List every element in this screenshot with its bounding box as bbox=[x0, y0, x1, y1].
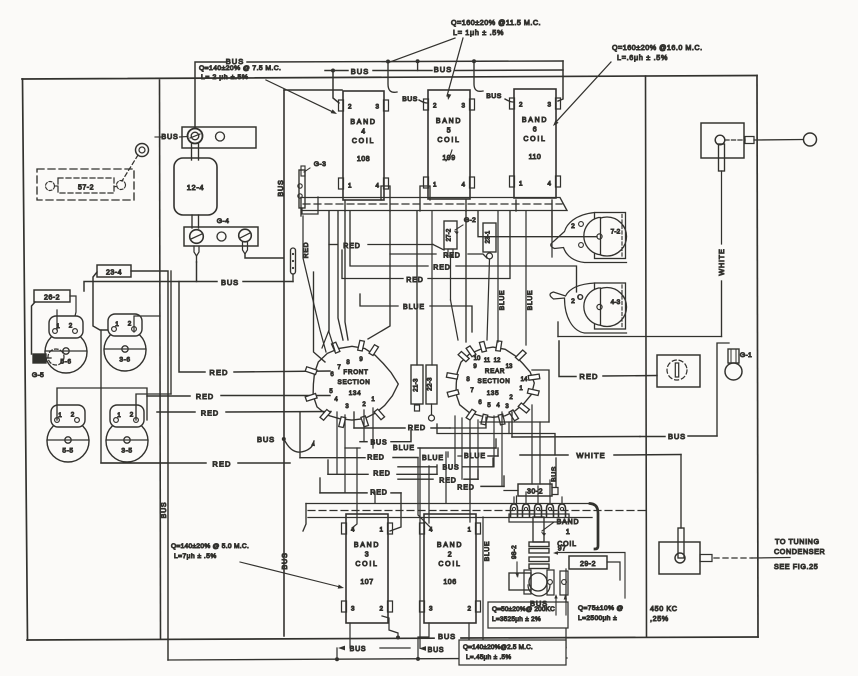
svg-text:BUS: BUS bbox=[530, 599, 548, 608]
svg-text:L= 1μh ± .5%: L= 1μh ± .5% bbox=[453, 28, 504, 37]
trimmer shaft dashed bbox=[725, 137, 754, 144]
coil L109 pins bbox=[433, 103, 465, 189]
svg-text:1: 1 bbox=[379, 527, 383, 534]
note Q140 2.5MC box bbox=[459, 640, 566, 665]
junction b3 b bbox=[416, 657, 420, 661]
svg-text:G-1: G-1 bbox=[740, 352, 752, 359]
label RED l2 bbox=[196, 392, 214, 401]
leader to band6 coil bbox=[553, 62, 611, 126]
label BUS curve bbox=[257, 435, 275, 444]
svg-text:23-4: 23-4 bbox=[106, 270, 122, 277]
svg-text:26-2: 26-2 bbox=[44, 295, 60, 302]
svg-text:TO TUNING: TO TUNING bbox=[775, 537, 820, 546]
svg-text:1: 1 bbox=[519, 181, 523, 188]
label band1 coil bbox=[557, 519, 580, 553]
red wire m1 bbox=[354, 412, 486, 428]
svg-text:Q=140±20% @ 7.5 M.C.: Q=140±20% @ 7.5 M.C. bbox=[199, 65, 281, 72]
svg-text:14: 14 bbox=[521, 377, 528, 383]
wire to cam 4-3 bbox=[350, 211, 577, 292]
junction rail2 bbox=[331, 69, 335, 73]
svg-text:5: 5 bbox=[447, 128, 451, 135]
svg-text:RED: RED bbox=[212, 460, 231, 469]
svg-text:3: 3 bbox=[547, 102, 551, 109]
wire b3p2 down bbox=[382, 616, 398, 638]
trimmer assembly bbox=[509, 570, 568, 596]
label BLUE m2 bbox=[422, 455, 444, 462]
wire b4p1 down bbox=[338, 200, 348, 340]
svg-text:3: 3 bbox=[429, 606, 433, 613]
svg-text:3: 3 bbox=[351, 606, 355, 613]
svg-text:BLUE: BLUE bbox=[527, 290, 534, 311]
wire drops coils bbox=[352, 428, 470, 648]
svg-text:BUS: BUS bbox=[428, 647, 445, 654]
wire b2p2 down bbox=[468, 623, 470, 640]
svg-text:12-4: 12-4 bbox=[187, 183, 204, 192]
wire b5p4 down bbox=[432, 200, 466, 365]
leader to band3 bbox=[240, 562, 344, 589]
socket 5-6 bbox=[45, 316, 87, 373]
svg-text:G-3: G-3 bbox=[314, 161, 327, 168]
svg-text:1: 1 bbox=[348, 183, 352, 190]
stem 12-4 bottom bbox=[192, 215, 199, 228]
svg-text:Q=140±20% @ 5.0 M.C.: Q=140±20% @ 5.0 M.C. bbox=[171, 543, 249, 550]
svg-text:RED: RED bbox=[303, 242, 310, 258]
label RED u3 bbox=[406, 277, 423, 284]
wire feedthru down bbox=[293, 272, 325, 362]
label RED u2 bbox=[443, 253, 460, 260]
svg-text:BUS: BUS bbox=[551, 466, 558, 482]
svg-text:11: 11 bbox=[484, 358, 491, 364]
svg-text:COIL: COIL bbox=[438, 561, 461, 568]
label RED m6 bbox=[370, 490, 387, 497]
svg-text:22-3: 22-3 bbox=[427, 377, 434, 391]
wire 3-5 right bbox=[136, 394, 171, 420]
svg-text:Q=160±20% @11.5 M.C.: Q=160±20% @11.5 M.C. bbox=[451, 18, 541, 27]
top chassis deck bbox=[301, 198, 567, 217]
trimmer stem bbox=[719, 144, 725, 244]
terminal 23-4 bbox=[97, 265, 131, 277]
capacitor 21-3 bbox=[411, 365, 423, 404]
bus wire lamp left bbox=[512, 412, 640, 437]
red wire m5 bbox=[481, 476, 504, 486]
svg-text:106: 106 bbox=[443, 579, 456, 586]
capacitor 23-1 lead bbox=[487, 253, 493, 340]
svg-text:RED: RED bbox=[370, 490, 387, 497]
terminal plate G-4 bbox=[184, 227, 258, 246]
dashed lug 57-2 right bbox=[114, 181, 126, 190]
label RED m5 bbox=[457, 485, 474, 492]
label BUS lamp bbox=[668, 432, 686, 441]
leader q50 a bbox=[554, 594, 557, 615]
svg-text:RED: RED bbox=[196, 392, 214, 401]
capacitor 23-1 bbox=[483, 223, 496, 252]
wire g4 right lug down bbox=[245, 254, 284, 258]
svg-text:SEE FIG.25: SEE FIG.25 bbox=[774, 562, 818, 571]
svg-text:2: 2 bbox=[519, 102, 523, 109]
capacitor 27-2 bbox=[444, 221, 457, 249]
label BUS 97 bbox=[530, 599, 548, 608]
socket 5-5 bbox=[47, 405, 89, 462]
svg-text:2: 2 bbox=[71, 412, 75, 419]
label BLUE u4 bbox=[403, 304, 425, 311]
lug G-4 right bbox=[243, 242, 248, 254]
svg-text:BLUE: BLUE bbox=[403, 304, 425, 311]
socket 5-6 ghost hole bbox=[48, 349, 64, 365]
capacitor 12-4 bbox=[174, 158, 217, 215]
svg-text:BAND: BAND bbox=[436, 118, 462, 125]
svg-text:4-3: 4-3 bbox=[611, 299, 621, 306]
svg-text:6: 6 bbox=[533, 127, 537, 134]
white wire right bbox=[558, 281, 722, 337]
svg-text:BUS: BUS bbox=[161, 132, 178, 141]
svg-text:COIL: COIL bbox=[355, 561, 378, 568]
svg-text:RED: RED bbox=[433, 265, 450, 272]
leader 97 bbox=[553, 551, 625, 598]
label BLUE v1 bbox=[499, 290, 506, 311]
label RED v1 bbox=[303, 242, 310, 258]
wire b3p3 down bbox=[349, 623, 351, 648]
coil L106 pins bbox=[429, 527, 471, 613]
svg-text:BLUE: BLUE bbox=[393, 445, 415, 452]
label G-1 bbox=[740, 352, 752, 359]
svg-text:2: 2 bbox=[69, 323, 73, 330]
label G-5 bbox=[32, 372, 44, 379]
svg-text:REAR: REAR bbox=[485, 368, 505, 375]
note Q160 16MC bbox=[612, 43, 703, 62]
label BUS vert g3 bbox=[276, 179, 285, 196]
bracket G-3 bbox=[298, 166, 318, 214]
note Q50 box bbox=[488, 602, 568, 628]
svg-text:2: 2 bbox=[571, 223, 575, 230]
capacitor 21-3 pin bbox=[415, 405, 420, 411]
switch wafer rear section bbox=[446, 341, 539, 425]
svg-text:108: 108 bbox=[357, 156, 370, 163]
bus wire m1 bbox=[360, 430, 411, 442]
note 450KC bbox=[650, 604, 678, 623]
label WHITE vert bbox=[717, 248, 726, 275]
wire b5p1 down bbox=[417, 186, 430, 365]
dashed module 57-2 inner bbox=[58, 178, 114, 193]
red wire m4 bbox=[398, 470, 478, 479]
leader to band5 coil bbox=[390, 38, 463, 100]
label G-2 bbox=[454, 217, 476, 235]
svg-text:Q=140±20%@2.5 M.C.: Q=140±20%@2.5 M.C. bbox=[463, 644, 533, 651]
cam switch 7-2 bbox=[551, 213, 627, 263]
bus wire g4 right bbox=[243, 281, 293, 283]
svg-text:RED: RED bbox=[443, 253, 460, 260]
lug G-5 bbox=[33, 354, 51, 363]
label BUS g4 bbox=[221, 278, 239, 287]
svg-text:135: 135 bbox=[487, 390, 500, 397]
svg-text:107: 107 bbox=[360, 579, 373, 586]
cam 4-3 pivot bbox=[578, 295, 583, 300]
svg-text:3-6: 3-6 bbox=[119, 357, 130, 364]
wire left bus vertical2 bbox=[170, 271, 172, 394]
label front section bbox=[338, 369, 371, 397]
svg-text:RED: RED bbox=[367, 455, 384, 462]
label WHITE low bbox=[576, 451, 605, 460]
svg-text:BLUE: BLUE bbox=[464, 453, 486, 460]
leader q75 bbox=[564, 595, 567, 615]
label BUS b2a bbox=[338, 646, 366, 653]
svg-text:BLUE: BLUE bbox=[422, 455, 444, 462]
wire b6p1 down bbox=[515, 200, 517, 211]
svg-text:5-5: 5-5 bbox=[62, 448, 73, 455]
coil L109 check mark bbox=[446, 150, 452, 161]
svg-text:G-2: G-2 bbox=[464, 217, 476, 224]
label BUS rail1 bbox=[226, 57, 244, 66]
wire 30-2 down bbox=[504, 458, 558, 504]
label BUS vert mid bbox=[280, 552, 289, 569]
svg-text:2: 2 bbox=[128, 321, 132, 328]
red wire u1 bbox=[329, 211, 444, 351]
lug G-4 left bbox=[194, 246, 199, 262]
label BUS rail2b bbox=[434, 65, 452, 74]
svg-text:BLUE: BLUE bbox=[484, 541, 491, 562]
svg-text:RED: RED bbox=[343, 243, 360, 250]
wire rail2 to band4 pin2 bbox=[333, 71, 339, 104]
bus rail b2b bbox=[0, 0, 1, 1]
wire rear contacts bus bbox=[480, 405, 549, 484]
wire 26-2 to socket bbox=[70, 296, 76, 320]
deck drain tube bbox=[590, 504, 598, 550]
blue wire v1 bbox=[497, 211, 499, 342]
wire b6p4 down bbox=[551, 200, 553, 237]
wire socket row bbox=[57, 388, 147, 420]
coil L106 band2 bbox=[420, 514, 481, 623]
label BLUE v2 bbox=[527, 290, 534, 311]
svg-text:BAND: BAND bbox=[350, 119, 376, 126]
svg-text:4: 4 bbox=[361, 129, 365, 136]
svg-text:Q=75±10% @: Q=75±10% @ bbox=[578, 605, 624, 612]
wire rear wafer right loop bbox=[532, 370, 549, 422]
svg-text:L=7μh ± .5%: L=7μh ± .5% bbox=[174, 553, 217, 560]
coil L107 band3 bbox=[342, 514, 393, 623]
bus rail b2 bbox=[380, 647, 566, 650]
cam 7-2 pin2 bbox=[571, 222, 583, 248]
svg-text:134: 134 bbox=[349, 390, 362, 397]
svg-text:COIL: COIL bbox=[523, 136, 546, 143]
svg-text:450 KC: 450 KC bbox=[650, 604, 678, 613]
junction rail1 a bbox=[386, 60, 390, 64]
svg-text:12: 12 bbox=[494, 358, 501, 364]
svg-text:2: 2 bbox=[467, 606, 471, 613]
svg-text:13: 13 bbox=[506, 364, 513, 370]
red wire l1 bbox=[179, 282, 330, 373]
red wire m6 bbox=[320, 478, 401, 531]
svg-text:1: 1 bbox=[115, 321, 119, 328]
terminal strip lugs bbox=[509, 504, 569, 522]
svg-text:G-5: G-5 bbox=[32, 372, 44, 379]
red wire l2 bbox=[147, 395, 330, 398]
svg-text:BUS: BUS bbox=[402, 96, 417, 103]
svg-text:WHITE: WHITE bbox=[717, 248, 726, 275]
terminal 29-2 bbox=[569, 556, 607, 569]
label BUS border bbox=[438, 632, 456, 641]
socket 3-5 bbox=[106, 405, 148, 462]
svg-text:27-2: 27-2 bbox=[447, 228, 453, 241]
wire 3-6 pin1 down bbox=[101, 330, 168, 463]
svg-text:SECTION: SECTION bbox=[478, 378, 511, 385]
condenser box bbox=[659, 542, 700, 574]
coil L107 pins bbox=[351, 527, 383, 613]
label RED m2 bbox=[367, 455, 384, 462]
wire socket 5-6 pin1 bbox=[56, 310, 58, 330]
svg-text:RED: RED bbox=[209, 368, 228, 377]
label G-4 bbox=[217, 218, 230, 225]
terminal 30-2 bbox=[518, 484, 552, 496]
svg-text:FRONT: FRONT bbox=[343, 369, 368, 376]
svg-text:10: 10 bbox=[474, 356, 481, 362]
blue wire u4 bbox=[360, 294, 472, 332]
svg-text:BUS: BUS bbox=[350, 646, 367, 653]
dashed lug 57-2 left bbox=[46, 182, 59, 191]
svg-text:RED: RED bbox=[373, 471, 390, 478]
svg-text:WHITE: WHITE bbox=[576, 451, 605, 460]
coil L110 band6 bbox=[510, 89, 561, 198]
note Q160 11.5MC bbox=[451, 18, 541, 37]
red wire l3 bbox=[157, 411, 331, 414]
cam 4-3 pin2 bbox=[571, 295, 582, 305]
note Q75 bbox=[578, 605, 624, 622]
svg-text:,25%: ,25% bbox=[650, 614, 669, 623]
svg-text:BUS: BUS bbox=[434, 65, 452, 74]
label BUS b2b bbox=[419, 646, 444, 654]
svg-text:3: 3 bbox=[461, 103, 465, 110]
label RED l4 bbox=[212, 460, 231, 469]
svg-text:BUS: BUS bbox=[226, 57, 244, 66]
left panel partition bbox=[160, 80, 161, 639]
svg-text:RED: RED bbox=[201, 409, 219, 418]
label BUS rail2 bbox=[351, 67, 369, 76]
svg-text:7-2: 7-2 bbox=[611, 229, 621, 236]
svg-text:2: 2 bbox=[433, 103, 437, 110]
label BUS 30-2 bbox=[551, 466, 558, 482]
svg-text:BAND: BAND bbox=[354, 542, 380, 549]
svg-text:RED: RED bbox=[579, 372, 598, 381]
svg-text:1: 1 bbox=[433, 182, 437, 189]
junction border bbox=[396, 636, 400, 640]
svg-text:4: 4 bbox=[375, 183, 379, 190]
svg-text:L=.6μh ± .5%: L=.6μh ± .5% bbox=[617, 53, 668, 62]
coil L108 band4 bbox=[339, 91, 389, 200]
red wire l4 bbox=[101, 462, 290, 464]
label BLUE m3 bbox=[464, 453, 486, 460]
leader 98-2 bbox=[515, 562, 519, 578]
terminal strip box bbox=[657, 355, 700, 387]
wire 29-2 bbox=[566, 562, 620, 648]
bus wire 26-2 branch bbox=[84, 282, 197, 292]
svg-text:1: 1 bbox=[467, 527, 471, 534]
capacitor 22-3 pin bbox=[429, 404, 435, 421]
red wire u3 bbox=[342, 211, 510, 279]
svg-text:BUS: BUS bbox=[280, 552, 289, 569]
svg-text:BUS: BUS bbox=[351, 67, 369, 76]
label BLUE v3 bbox=[484, 541, 491, 562]
svg-text:1: 1 bbox=[117, 412, 121, 419]
wire rail1-rail2 link bbox=[416, 59, 420, 70]
svg-text:BUS: BUS bbox=[668, 432, 686, 441]
label G-3 bbox=[304, 161, 326, 172]
label rear section bbox=[478, 368, 511, 397]
svg-text:110: 110 bbox=[529, 154, 542, 161]
switch wafer front section bbox=[305, 340, 398, 427]
center bus wire vertical bbox=[284, 90, 342, 636]
svg-text:SECTION: SECTION bbox=[338, 379, 371, 386]
junction b3 a bbox=[335, 657, 339, 661]
label BUS grommet bbox=[155, 132, 188, 141]
leader band1 bbox=[541, 522, 554, 536]
svg-text:Q=160±20% @16.0 M.C.: Q=160±20% @16.0 M.C. bbox=[612, 43, 703, 52]
label RED m4 bbox=[439, 478, 456, 485]
bus rail 1 bbox=[195, 61, 563, 128]
wire wafer topleft fan bbox=[303, 211, 329, 352]
coil L108 pins bbox=[348, 104, 379, 190]
dashed module 57-2 outer bbox=[37, 169, 134, 200]
svg-text:RED: RED bbox=[457, 485, 474, 492]
wire 26-2 down bbox=[32, 302, 36, 354]
svg-text:BAND: BAND bbox=[522, 117, 548, 124]
svg-text:57-2: 57-2 bbox=[78, 185, 94, 192]
condenser link bbox=[700, 555, 790, 562]
label BUS vert left bbox=[161, 502, 168, 519]
svg-text:4: 4 bbox=[547, 181, 551, 188]
wire b4p4 down bbox=[368, 186, 390, 339]
white wire low bbox=[437, 424, 681, 455]
svg-text:2: 2 bbox=[379, 606, 383, 613]
coil L109 band5 bbox=[424, 90, 475, 199]
wire b2p3 down bbox=[418, 623, 429, 659]
cam switch 4-3 bbox=[550, 283, 627, 333]
label BUS m2 bbox=[442, 465, 459, 472]
bus rail b3 bbox=[168, 658, 567, 660]
grommet bushing bbox=[136, 144, 149, 157]
svg-text:29-2: 29-2 bbox=[580, 561, 596, 568]
svg-text:2: 2 bbox=[348, 104, 352, 111]
svg-text:BAND: BAND bbox=[557, 519, 580, 526]
label 98-2 bbox=[511, 545, 518, 559]
label RED u1 bbox=[343, 243, 360, 250]
svg-text:BUS: BUS bbox=[161, 502, 168, 519]
svg-text:RED: RED bbox=[439, 478, 456, 485]
wire lug risers bbox=[514, 480, 562, 504]
label RED l3 bbox=[201, 409, 219, 418]
svg-text:BLUE: BLUE bbox=[499, 290, 506, 311]
capacitor 27-2 lead bbox=[448, 249, 458, 340]
svg-text:BAND: BAND bbox=[437, 542, 463, 549]
note Q140 5MC bbox=[171, 543, 249, 560]
coil L110 pins bbox=[519, 102, 551, 188]
label RED cam43 bbox=[433, 265, 450, 272]
svg-text:L=2500μh ±: L=2500μh ± bbox=[578, 615, 617, 622]
svg-text:COIL: COIL bbox=[437, 137, 460, 144]
blue wire m2 hook bbox=[447, 452, 449, 457]
wire grommet dashes bbox=[122, 155, 138, 181]
bus hook to wafer bbox=[282, 437, 315, 452]
blue wire v3 bbox=[482, 517, 484, 640]
svg-text:BUS: BUS bbox=[438, 632, 456, 641]
wire 3-6 pin2 up bbox=[134, 316, 160, 332]
svg-text:CONDENSER: CONDENSER bbox=[774, 547, 825, 556]
blue wire m3 bbox=[458, 448, 498, 456]
feedthru bushing bbox=[291, 248, 296, 274]
svg-text:2: 2 bbox=[130, 412, 134, 419]
svg-text:1: 1 bbox=[566, 529, 570, 536]
svg-text:BUS: BUS bbox=[221, 278, 239, 287]
blue wire m1 bbox=[345, 439, 496, 448]
chassis outer border bbox=[22, 76, 758, 641]
svg-text:30-2: 30-2 bbox=[527, 489, 543, 496]
